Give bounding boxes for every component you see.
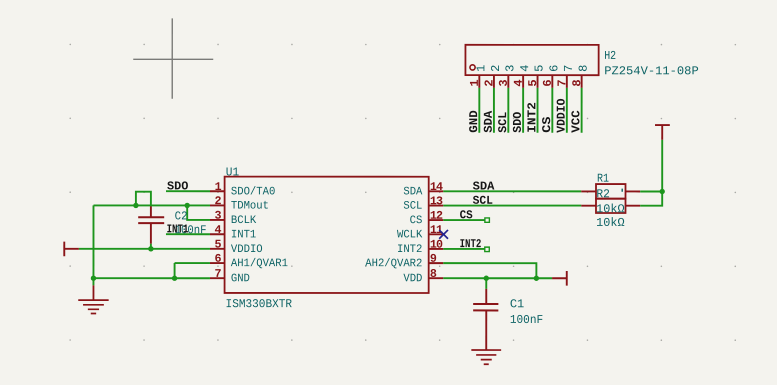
junction pin2/pin3 [184,203,189,208]
op-amp U1 ISM330BXTR body [210,177,443,293]
wire VDDIO run [79,248,210,250]
svg-text:CS: CS [460,208,473,222]
net label VCC [569,110,583,133]
svg-text:SCL: SCL [496,112,510,133]
svg-text:3: 3 [215,209,222,223]
label SDA [473,180,496,194]
junction gnd corner [91,275,96,280]
wire VDD run pin 8 [443,277,552,279]
no-connect X on pin 11 [439,230,448,239]
svg-text:4: 4 [215,223,222,237]
svg-text:3: 3 [503,65,517,72]
wire gnd drop [92,278,94,285]
svg-text:H2: H2 [604,49,616,63]
wire left vertical [92,205,94,278]
svg-text:VDDIO: VDDIO [555,99,569,133]
svg-text:SDA: SDA [482,110,496,133]
C1 value 100nF [510,313,543,327]
junction R1/vertical [659,189,664,194]
junction C2/VDDIO [148,246,153,251]
svg-text:12: 12 [430,209,443,223]
svg-text:INT2: INT2 [460,237,482,251]
H2 pin 3 wire [507,75,509,133]
power symbol VCC top right [655,125,670,140]
svg-text:SDA: SDA [473,180,496,194]
svg-text:C2: C2 [175,209,188,223]
H2 pin 6 wire [551,75,553,133]
svg-text:100nF: 100nF [510,313,543,327]
net label SCL [496,112,510,133]
net label SDA [482,110,496,133]
capacitor C2 [138,206,164,243]
svg-text:9: 9 [430,252,437,266]
net label SDO [511,112,525,133]
C1 reference label [510,297,524,311]
svg-text:C1: C1 [510,297,524,311]
svg-text:BCLK: BCLK [231,215,257,227]
label SCL [473,194,493,208]
H2 pin 1 wire [478,75,480,133]
svg-text:8: 8 [430,267,437,281]
H2 pin 7 wire [566,75,568,133]
capacitor C1 [473,289,498,350]
U1 left pin names [231,186,288,285]
svg-text:SDO: SDO [167,179,188,193]
svg-text:R2: R2 [596,187,610,201]
junction pin6/pin7 [172,276,177,281]
H2 pin 5 wire [537,75,539,133]
resistor R1 [581,184,640,199]
svg-text:INT2: INT2 [525,102,539,133]
svg-text:SDO: SDO [511,112,525,133]
svg-text:TDMout: TDMout [231,201,269,213]
wire INT1 to pin 4 [166,233,210,235]
power symbol VDD right [552,271,567,286]
svg-text:VDDIO: VDDIO [231,244,263,256]
wire C2 to VDDIO [150,244,152,249]
R1 value 10k&#937; [596,202,624,216]
label SDO [167,179,188,193]
wire C2 hook [136,192,151,207]
label INT2 [460,237,482,251]
label CS [460,208,473,222]
svg-text:SDO/TA0: SDO/TA0 [231,186,276,198]
H2 reference label [604,49,616,63]
svg-text:VDD: VDD [403,273,422,285]
H2 pin 8 wire [581,75,583,133]
svg-text:INT1: INT1 [231,229,257,241]
wire pin 9 bend [443,263,536,278]
U1 reference label [226,165,239,179]
svg-text:14: 14 [430,180,443,194]
svg-text:2: 2 [215,194,222,208]
H2 pin numbers 1-8 [468,79,584,86]
svg-text:SCL: SCL [473,194,493,208]
net label GND [467,110,481,133]
svg-text:2: 2 [489,65,503,72]
net label INT2 [525,102,539,133]
svg-text:CS: CS [540,117,554,133]
resistor R2 [581,199,640,213]
R2 value 10k&#937; [596,216,624,230]
svg-text:VCC: VCC [569,110,583,133]
C2 reference label [175,209,188,223]
svg-text:6: 6 [215,252,222,266]
svg-text:INT1: INT1 [167,222,189,236]
net label VDDIO [555,99,569,133]
label INT1 [167,222,189,236]
svg-text:AH1/QVAR1: AH1/QVAR1 [231,258,288,270]
wire pin 3 link [187,205,210,220]
connector H2 [465,45,598,75]
svg-text:R1: R1 [597,172,609,186]
U1 right pin names [365,186,422,285]
wire C1 drop [485,278,487,289]
svg-text:11: 11 [430,223,443,237]
svg-text:CS: CS [410,215,423,227]
svg-text:5: 5 [215,238,222,252]
U1 value ISM330BXTR [226,297,293,311]
svg-text:AH2/QVAR2: AH2/QVAR2 [365,258,422,270]
H2 pin 2 wire [493,75,495,133]
R1 reference label [597,172,609,186]
R2 reference label [596,187,610,201]
svg-text:10: 10 [430,238,443,252]
svg-text:SDA: SDA [403,186,422,198]
svg-text:U1: U1 [226,165,239,179]
wire R2 right bend [640,140,662,206]
wire INT2 from pin 10 [443,247,489,251]
R2 pin-1 marker tick [621,189,623,192]
svg-text:6: 6 [547,65,561,72]
U1 left pin numbers 1-7 [215,180,222,281]
svg-text:10kΩ: 10kΩ [596,216,624,230]
wire pin 2 run [93,204,209,206]
svg-text:GND: GND [467,110,481,133]
svg-text:4: 4 [518,65,532,72]
junction C1/VDD [484,276,489,281]
C2 value 100nF [175,223,207,237]
H2 pin 4 wire [522,75,524,133]
svg-text:PZ254V-11-08P: PZ254V-11-08P [604,64,699,78]
junction pin2/hook [133,203,138,208]
svg-text:INT2: INT2 [397,244,423,256]
svg-text:8: 8 [577,65,591,72]
wire CS from pin 12 [443,218,489,222]
svg-text:WCLK: WCLK [397,229,423,241]
svg-text:1: 1 [215,180,222,194]
power symbol +3V3 on VDDIO [64,242,79,257]
svg-text:1: 1 [474,65,488,72]
svg-text:GND: GND [231,273,250,285]
wire SDO to pin 1 [166,190,210,192]
wire R1 right [640,190,662,192]
svg-text:ISM330BXTR: ISM330BXTR [226,297,293,311]
svg-text:7: 7 [215,267,222,281]
svg-text:7: 7 [562,65,576,72]
net label CS [540,117,554,133]
ground GND left [78,285,108,313]
wire SDA from pin 14 [443,190,581,192]
wire pin 7 GND run [93,277,210,279]
junction pin9/VDD [534,276,539,281]
U1 right pin numbers 14-8 [430,180,443,281]
H2 value PZ254V-11-08P [604,64,699,78]
svg-text:5: 5 [533,65,547,72]
svg-text:SCL: SCL [403,201,422,213]
svg-text:13: 13 [430,194,443,208]
svg-text:10kΩ: 10kΩ [596,202,624,216]
wire SCL from pin 13 [443,205,581,207]
cursor crosshair [133,18,213,98]
wire pin 6 bend [175,263,210,278]
ground below C1 [471,350,501,364]
